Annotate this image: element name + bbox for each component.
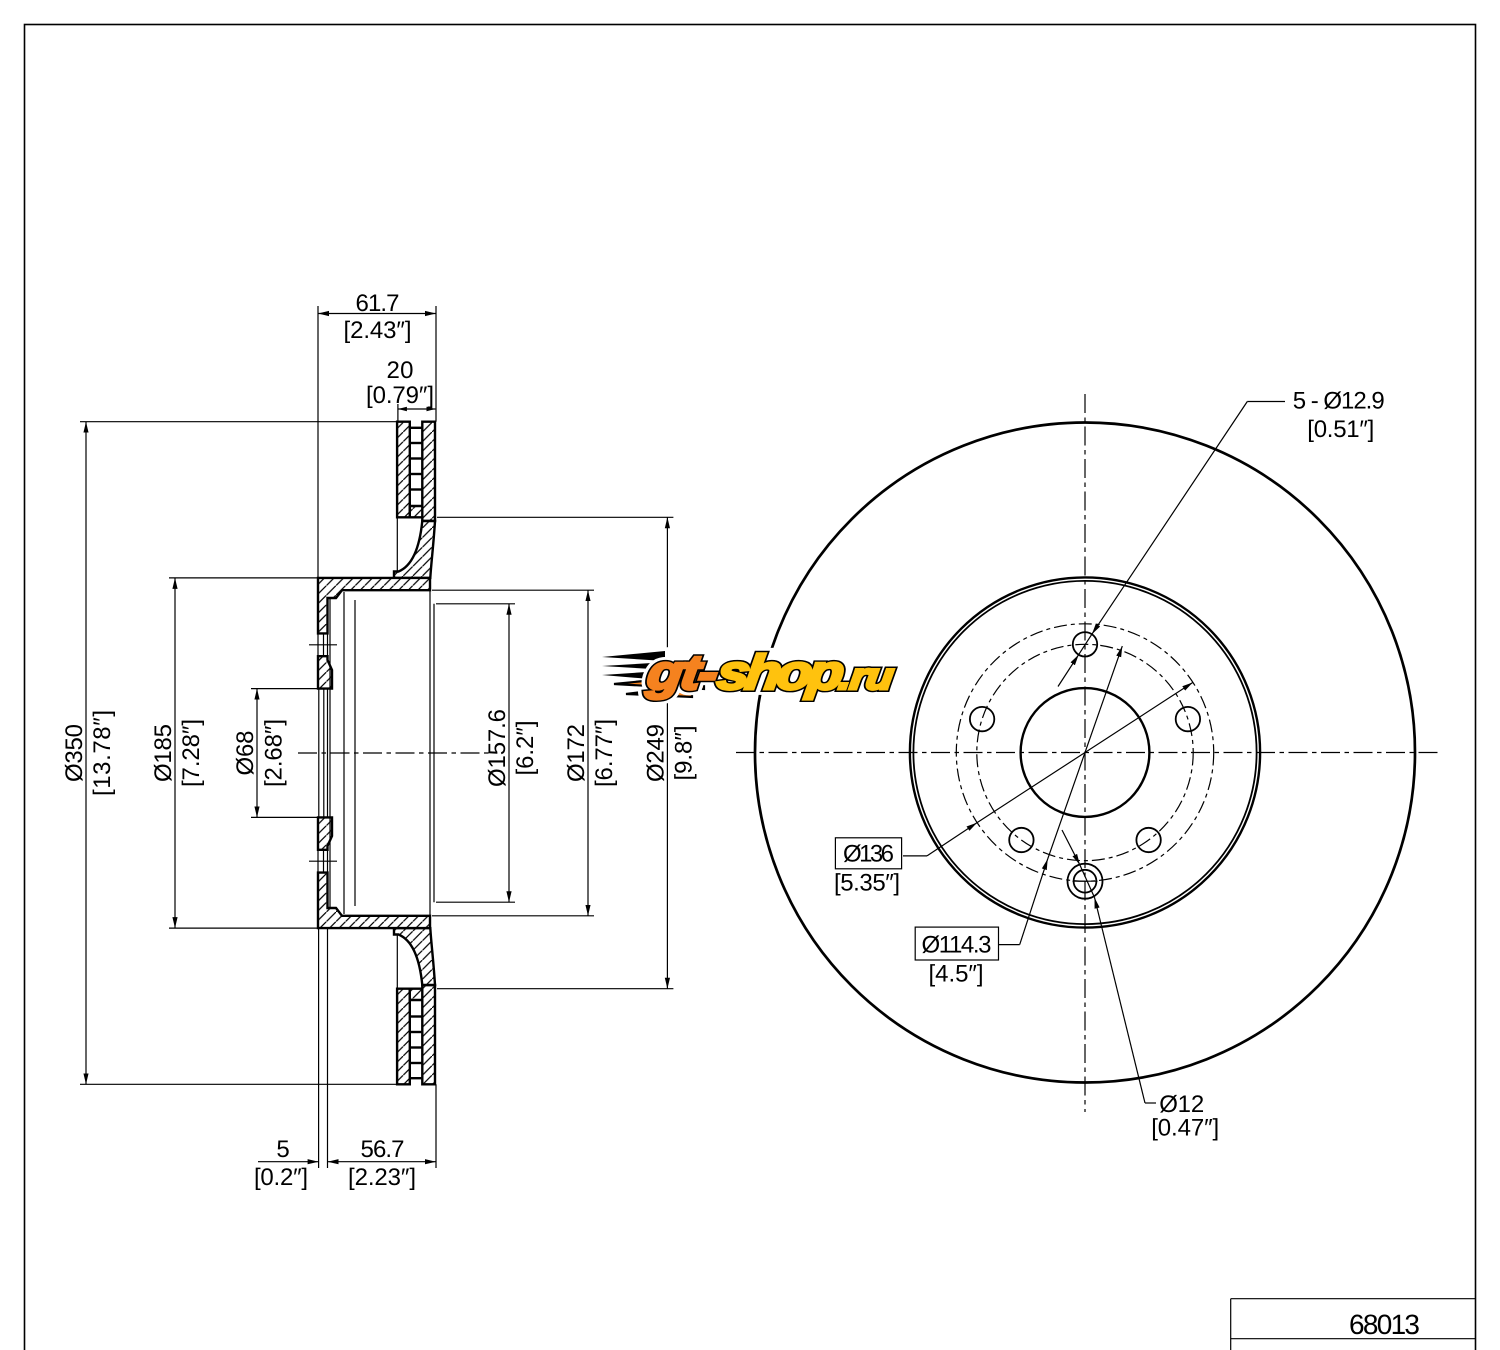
svg-text:Ø157.6: Ø157.6 — [484, 709, 511, 787]
svg-text:5: 5 — [276, 1136, 289, 1163]
svg-text:[0.51″]: [0.51″] — [1307, 416, 1374, 443]
svg-text:20: 20 — [387, 357, 414, 384]
svg-text:[9.8″]: [9.8″] — [670, 726, 697, 781]
svg-text:56.7: 56.7 — [361, 1136, 405, 1163]
svg-text:Ø136: Ø136 — [843, 841, 894, 868]
svg-text:gt-: gt- — [643, 645, 721, 700]
svg-text:.ru: .ru — [837, 656, 896, 697]
svg-text:[0.47″]: [0.47″] — [1151, 1115, 1219, 1142]
svg-text:Ø249: Ø249 — [642, 724, 669, 782]
svg-text:shop: shop — [714, 645, 847, 700]
svg-text:[0.79″]: [0.79″] — [366, 382, 434, 409]
svg-text:[6.2″]: [6.2″] — [512, 721, 539, 776]
svg-text:[4.5″]: [4.5″] — [929, 961, 984, 988]
svg-text:Ø172: Ø172 — [563, 724, 590, 782]
svg-text:61.7: 61.7 — [356, 290, 400, 317]
svg-text:[0.2″]: [0.2″] — [254, 1164, 308, 1191]
svg-text:Ø350: Ø350 — [61, 724, 88, 782]
svg-text:[6.77″]: [6.77″] — [591, 719, 618, 787]
svg-text:[2.68″]: [2.68″] — [261, 719, 288, 787]
svg-text:[7.28″]: [7.28″] — [178, 719, 205, 787]
svg-text:Ø185: Ø185 — [150, 724, 177, 782]
svg-text:[2.23″]: [2.23″] — [348, 1164, 416, 1191]
svg-text:5 - Ø12.9: 5 - Ø12.9 — [1293, 388, 1385, 415]
svg-text:Ø114.3: Ø114.3 — [922, 932, 992, 959]
svg-text:[2.43″]: [2.43″] — [344, 317, 412, 344]
svg-text:68013: 68013 — [1349, 1309, 1420, 1340]
svg-text:[13.78″]: [13.78″] — [89, 710, 116, 796]
svg-text:Ø68: Ø68 — [232, 731, 259, 776]
svg-text:[5.35″]: [5.35″] — [834, 870, 900, 897]
